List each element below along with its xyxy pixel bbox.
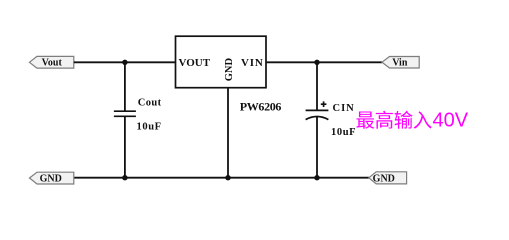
junction node Cout/GND <box>122 175 127 180</box>
net flag Vout <box>29 56 73 68</box>
svg-text:VOUT: VOUT <box>179 57 211 69</box>
junction node IC GND/rail <box>225 175 230 180</box>
net flag GND right <box>369 172 407 185</box>
svg-text:GND: GND <box>40 174 62 185</box>
svg-text:GND: GND <box>373 174 395 185</box>
capacitor CIN (polarized) <box>306 62 329 177</box>
junction node CIN/GND <box>314 175 319 180</box>
junction node Vout/Cout <box>122 60 127 65</box>
net flag GND left <box>30 172 74 184</box>
svg-text:10uF: 10uF <box>137 122 162 133</box>
annotation text 最高输入40V (max input 40V) <box>356 109 468 131</box>
svg-text:VIN: VIN <box>241 57 264 69</box>
ground rail wire <box>74 177 369 179</box>
svg-text:GND: GND <box>224 58 235 82</box>
polarity plus sign of CIN <box>321 101 327 107</box>
junction node VIN/CIN <box>314 60 319 65</box>
svg-text:40V: 40V <box>433 109 469 131</box>
wire VIN pin to Vin flag <box>266 61 382 63</box>
svg-text:Cout: Cout <box>138 98 162 109</box>
capacitor Cout <box>114 62 136 177</box>
svg-text:Vout: Vout <box>42 58 63 69</box>
svg-text:PW6206: PW6206 <box>240 99 282 113</box>
svg-text:Vin: Vin <box>392 58 408 69</box>
svg-text:CIN: CIN <box>333 103 355 114</box>
wire GND pin to ground rail <box>227 88 229 178</box>
net flag Vin <box>382 57 419 69</box>
IC U1 PW6206 body <box>176 36 267 87</box>
svg-text:10uF: 10uF <box>331 127 356 138</box>
wire Vout flag to VOUT pin <box>74 61 176 63</box>
